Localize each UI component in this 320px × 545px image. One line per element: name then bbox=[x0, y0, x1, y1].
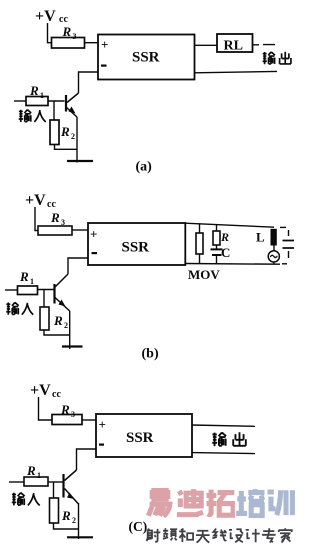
svg-text:R: R bbox=[62, 24, 72, 39]
resistor R2 (b) bbox=[40, 307, 49, 330]
wire SSR out bottom (a) bbox=[195, 71, 278, 72]
SSR box U2 (b) bbox=[88, 223, 185, 265]
label shuchu (c) bbox=[212, 432, 246, 446]
wire emitter to ground (b) bbox=[69, 311, 71, 349]
SSR box U1 (a) bbox=[98, 35, 195, 80]
svg-text:1: 1 bbox=[37, 471, 41, 480]
svg-text:2: 2 bbox=[71, 132, 75, 141]
resistor R1 (b) bbox=[18, 286, 38, 295]
ground (b) bbox=[62, 345, 83, 347]
svg-text:1: 1 bbox=[40, 91, 44, 100]
wire node to R2 (b) bbox=[43, 290, 45, 308]
wire SSR out bottom rail (b) bbox=[185, 263, 280, 266]
svg-text:(a): (a) bbox=[136, 160, 153, 175]
wire R3 to SSR + (c) bbox=[82, 419, 96, 421]
svg-text:R: R bbox=[53, 313, 63, 328]
supply +Vcc (c) bbox=[30, 382, 61, 400]
pin - (a) bbox=[101, 65, 107, 67]
label R3 (b) bbox=[50, 210, 65, 227]
svg-text:+V: +V bbox=[30, 382, 51, 399]
svg-text:cc: cc bbox=[52, 389, 61, 400]
label shuru (a) bbox=[19, 110, 46, 122]
wire Vcc to R3 (a) bbox=[48, 23, 52, 43]
wire SSR- to collector (b) bbox=[68, 258, 88, 274]
wire SSR out top rail (b) bbox=[185, 223, 274, 227]
watermark tagline bbox=[146, 528, 292, 542]
svg-text:MOV: MOV bbox=[188, 267, 220, 282]
label shuchu (a) bbox=[263, 52, 291, 64]
pin - (c) bbox=[99, 444, 104, 446]
svg-text:R: R bbox=[60, 124, 70, 139]
svg-text:3: 3 bbox=[71, 410, 75, 419]
inductor L (b) bbox=[271, 229, 277, 246]
svg-text:+V: +V bbox=[35, 8, 56, 25]
svg-text:3: 3 bbox=[73, 32, 77, 41]
snubber resistor R (b) bbox=[213, 224, 220, 249]
label R1 (a) bbox=[29, 83, 44, 100]
label R2 (b) bbox=[53, 313, 68, 330]
transistor Q2 (b) bbox=[55, 274, 70, 311]
supply +Vcc (b) bbox=[25, 192, 56, 210]
svg-text:R: R bbox=[220, 230, 229, 244]
wire Vcc to R3 (c) bbox=[39, 397, 53, 420]
SSR box U3 (c) bbox=[96, 414, 192, 457]
svg-text:2: 2 bbox=[64, 321, 68, 330]
wire node to R2 (c) bbox=[53, 482, 55, 498]
label R1 (c) bbox=[26, 463, 41, 480]
wire SSR- to collector (c) bbox=[77, 449, 97, 470]
svg-text:C: C bbox=[221, 245, 230, 260]
label shuru (b) bbox=[6, 302, 33, 314]
ground (a) bbox=[67, 160, 93, 162]
transistor Q1 (a) bbox=[66, 93, 79, 117]
svg-text:R: R bbox=[19, 269, 29, 284]
wire SSR out top rail (c) bbox=[192, 425, 255, 426]
load RL box (a) bbox=[217, 34, 253, 52]
resistor R1 (a) bbox=[26, 97, 48, 106]
resistor R2 (a) bbox=[50, 120, 59, 145]
wire R3 to SSR + (a) bbox=[85, 42, 99, 44]
wire SSR out top (a) bbox=[195, 44, 218, 46]
svg-text:3: 3 bbox=[61, 218, 65, 227]
wire RL out (a) bbox=[253, 44, 276, 46]
snubber capacitor C (b) bbox=[211, 249, 223, 263]
label R2 (c) bbox=[61, 508, 76, 525]
wire R1 to base (b) bbox=[38, 289, 55, 291]
label R3 (c) bbox=[60, 402, 75, 419]
wire Vcc to R3 (b) bbox=[35, 207, 38, 231]
svg-text:+: + bbox=[99, 417, 106, 432]
label R2 (a) bbox=[60, 124, 75, 141]
svg-text:2: 2 bbox=[72, 516, 76, 525]
label R1 (b) bbox=[19, 269, 34, 286]
svg-text:1: 1 bbox=[30, 277, 34, 286]
resistor R3 (b) bbox=[38, 226, 72, 235]
pin - (b) bbox=[92, 252, 98, 254]
resistor R2 (c) bbox=[50, 498, 59, 523]
input wire (b) bbox=[5, 289, 18, 291]
svg-text:(C): (C) bbox=[129, 519, 148, 534]
svg-text:SSR: SSR bbox=[132, 50, 160, 66]
resistor R1 (c) bbox=[24, 477, 48, 486]
varistor MOV (b) bbox=[196, 223, 203, 263]
ground (c) bbox=[67, 536, 93, 538]
wire emitter to ground (a) bbox=[76, 117, 78, 163]
watermark yi di tuo bbox=[148, 489, 234, 516]
label shuru (c) bbox=[12, 493, 40, 506]
input wire (a) bbox=[14, 100, 26, 102]
svg-text:+V: +V bbox=[25, 192, 46, 209]
stray capacitance dashed (b) bbox=[280, 227, 294, 263]
svg-text:L: L bbox=[256, 230, 265, 245]
wire R2 bottom to emitter (c) bbox=[54, 523, 79, 529]
wire emitter to ground (c) bbox=[78, 503, 80, 539]
svg-text:SSR: SSR bbox=[126, 430, 154, 446]
resistor R3 (a) bbox=[52, 38, 85, 49]
svg-text:RL: RL bbox=[224, 39, 243, 54]
svg-text:R: R bbox=[61, 508, 71, 523]
wire R3 to SSR + (b) bbox=[72, 229, 88, 231]
svg-text:(b): (b) bbox=[142, 347, 159, 362]
resistor R3 (c) bbox=[52, 415, 82, 425]
input wire (c) bbox=[9, 481, 24, 483]
svg-text:R: R bbox=[26, 463, 36, 478]
transistor Q3 (c) bbox=[64, 470, 79, 504]
wire R2 bottom to emitter (b) bbox=[44, 330, 70, 335]
AC source (b) bbox=[268, 251, 279, 264]
wire SSR- to transistor collector (a) bbox=[79, 72, 99, 93]
svg-text:cc: cc bbox=[47, 199, 56, 210]
label R3 (a) bbox=[62, 24, 77, 41]
watermark pei xun bbox=[236, 489, 292, 516]
wire node to R2 (a) bbox=[53, 101, 55, 120]
supply +Vcc (a) bbox=[35, 8, 68, 25]
wire R1 to base (a) bbox=[48, 100, 65, 102]
svg-text:+: + bbox=[101, 37, 108, 52]
wire R1 to base (c) bbox=[48, 481, 63, 483]
wire L to source (b) bbox=[273, 246, 275, 252]
wire R2 bottom to emitter (a) bbox=[55, 145, 78, 150]
svg-text:R: R bbox=[50, 210, 60, 225]
svg-text:R: R bbox=[60, 402, 70, 417]
svg-text:SSR: SSR bbox=[122, 240, 150, 256]
svg-text:+: + bbox=[90, 227, 97, 242]
wire SSR out bottom rail (c) bbox=[192, 453, 255, 454]
